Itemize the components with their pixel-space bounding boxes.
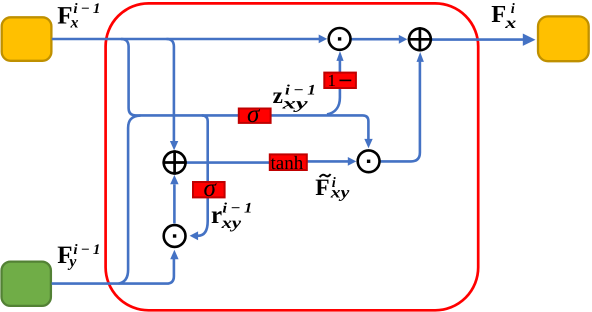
label F_x^{i} (top-right output) bbox=[491, 1, 516, 32]
label F-tilde_xy^{i} (candidate) bbox=[315, 174, 350, 202]
label z_xy^{i-1} (update gate) bbox=[273, 83, 316, 113]
svg-text:i − 1: i − 1 bbox=[73, 242, 100, 258]
node: elementwise multiply (candidate * z) bbox=[358, 150, 380, 172]
wire: candidate multiply output up to add node bbox=[380, 62, 420, 162]
svg-text:r: r bbox=[211, 202, 222, 229]
wire: main horizontal from F_x to multiply node bbox=[52, 39, 524, 284]
op: 1-minus box bbox=[324, 71, 356, 90]
wire: green horizontal line to reset multiply bbox=[52, 259, 174, 284]
input block F_y (green) bbox=[2, 262, 51, 306]
wire: branch down from main wire to z-gate line bbox=[121, 39, 136, 115]
label F_y^{i-1} (bottom-left input) bbox=[57, 242, 100, 270]
arrow into candidate multiply (top) bbox=[364, 139, 372, 148]
wire: vertical h branch to middle add node bbox=[167, 39, 174, 141]
svg-text:tanh: tanh bbox=[271, 153, 304, 174]
module boundary (red rounded rect) bbox=[106, 3, 479, 310]
svg-text:y: y bbox=[67, 253, 77, 270]
wire: add node to output arrow bbox=[432, 38, 524, 41]
svg-text:F: F bbox=[315, 175, 329, 201]
svg-text:xy: xy bbox=[281, 95, 309, 112]
svg-text:1: 1 bbox=[328, 71, 337, 90]
wire: tanh output to multiply node bbox=[307, 160, 349, 163]
svg-text:z: z bbox=[273, 83, 283, 108]
label F_x^{i-1} (top-left input) bbox=[57, 1, 100, 32]
wire: multiply to add node bbox=[352, 38, 400, 41]
input block F_x (yellow) bbox=[2, 17, 52, 61]
wire: 1-minus branch curve bbox=[327, 89, 340, 115]
arrow into middle add (top) bbox=[170, 141, 178, 150]
arrow into reset multiply (right) bbox=[190, 231, 199, 240]
arrow into reset multiply (bottom) bbox=[170, 250, 178, 259]
svg-text:x: x bbox=[504, 15, 516, 32]
svg-text:σ: σ bbox=[247, 101, 261, 128]
arrow into top add (bottom) bbox=[417, 52, 424, 62]
op: sigma (update gate z) bbox=[239, 101, 271, 128]
arrowheads (blue) bbox=[170, 34, 536, 260]
wire: 1-minus box up to multiply node bbox=[339, 61, 342, 73]
svg-text:xy: xy bbox=[220, 215, 242, 232]
arrow into middle add (bottom) bbox=[170, 175, 178, 184]
arrow into top multiply (bottom) bbox=[336, 51, 343, 61]
wire: branch from green line up to z-gate line bbox=[119, 116, 141, 284]
svg-text:xy: xy bbox=[330, 185, 351, 202]
output block F_x (yellow) bbox=[538, 16, 589, 61]
arrow into output block (large) bbox=[523, 34, 536, 46]
svg-text:F: F bbox=[491, 1, 506, 28]
label r_xy^{i-1} (reset gate) bbox=[211, 201, 252, 232]
wire: reset sigma output curve into multiply bbox=[198, 198, 208, 236]
wire: add node output to tanh bbox=[186, 161, 269, 164]
wire: z-gate horizontal line through sigma bbox=[136, 115, 368, 139]
node: elementwise multiply (reset, r*h) bbox=[164, 225, 186, 247]
arrow into top multiply (left) bbox=[319, 35, 328, 44]
wire: reset multiply up to middle add node bbox=[173, 184, 176, 223]
node: elementwise multiply (top, (1-z)*h) bbox=[329, 28, 351, 50]
node: add (top, output sum) bbox=[408, 27, 432, 51]
svg-text:x: x bbox=[70, 15, 79, 32]
arrow into candidate multiply (left) bbox=[348, 157, 357, 166]
op: tanh box bbox=[270, 153, 307, 174]
op: sigma (reset gate r) bbox=[193, 175, 225, 202]
wire: z-line down to reset sigma bbox=[202, 115, 208, 181]
svg-text:σ: σ bbox=[204, 175, 218, 202]
node: add (middle, h + r*h) bbox=[162, 150, 186, 174]
arrow into top add (left) bbox=[399, 35, 408, 44]
